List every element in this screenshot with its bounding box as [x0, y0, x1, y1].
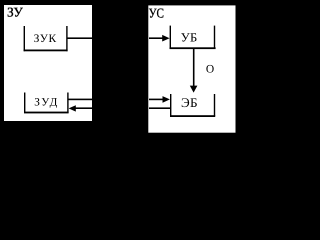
- svg-text:УС: УС: [149, 6, 164, 21]
- block ЗУ (left white panel): [4, 5, 92, 121]
- svg-text:ЭБ: ЭБ: [181, 95, 198, 110]
- svg-text:ЗУК: ЗУК: [34, 33, 57, 45]
- box ЗУК (open-top): [24, 26, 68, 51]
- arrowhead into ЭБ (points down): [190, 86, 198, 93]
- box ЭБ (open-top): [170, 94, 215, 117]
- arrowhead into УБ (points right): [162, 35, 169, 42]
- block УС (right white panel): [148, 5, 235, 132]
- svg-text:УБ: УБ: [181, 31, 198, 45]
- wire ЗУК to УБ (right segment): [149, 37, 163, 39]
- wire ЭБ to ЗУД (left segment): [75, 107, 92, 109]
- svg-text:ЗУ: ЗУ: [7, 4, 23, 19]
- wire ЗУД to ЭБ (right segment): [149, 99, 163, 101]
- wire УБ to ЭБ (vertical): [193, 49, 195, 87]
- wire ЗУК to УБ (left segment): [67, 37, 93, 39]
- arrowhead into ЭБ (points right): [163, 96, 170, 103]
- wire ЗУД to ЭБ (left segment): [68, 99, 92, 101]
- arrowhead into ЗУД (points left): [69, 105, 76, 111]
- svg-text:О: О: [206, 64, 214, 76]
- svg-text:ЗУД: ЗУД: [34, 96, 57, 108]
- box УБ (open-top): [170, 26, 216, 49]
- wire ЭБ to ЗУД (right segment): [149, 107, 171, 109]
- box ЗУД (open-top): [24, 93, 69, 114]
